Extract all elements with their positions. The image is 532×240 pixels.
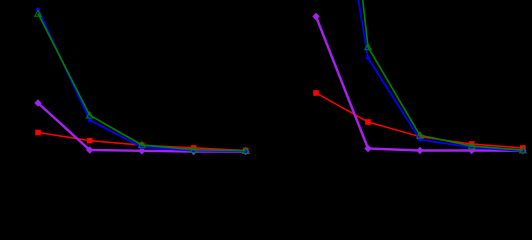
green triangle markers (right plot) (365, 44, 526, 153)
magenta diamond markers (right plot) (312, 13, 526, 155)
red square markers (left plot) (35, 130, 248, 154)
magenta line (right plot) (316, 17, 523, 151)
blue line (left plot) (38, 10, 246, 152)
magenta diamond markers (left plot) (34, 99, 249, 155)
red square markers (right plot) (313, 90, 525, 151)
green line (left plot) (38, 14, 246, 151)
red line (right plot) (316, 93, 523, 148)
chart: two convergence line plots on black background (0, 0, 532, 186)
blue line (right plot) (316, 0, 523, 151)
magenta line (left plot) (38, 103, 246, 152)
blue circle markers (left plot) (36, 7, 248, 153)
red line (left plot) (38, 133, 246, 151)
green triangle markers (left plot) (35, 10, 249, 153)
green line (right plot) (316, 0, 523, 150)
blue circle markers (right plot) (366, 56, 525, 153)
